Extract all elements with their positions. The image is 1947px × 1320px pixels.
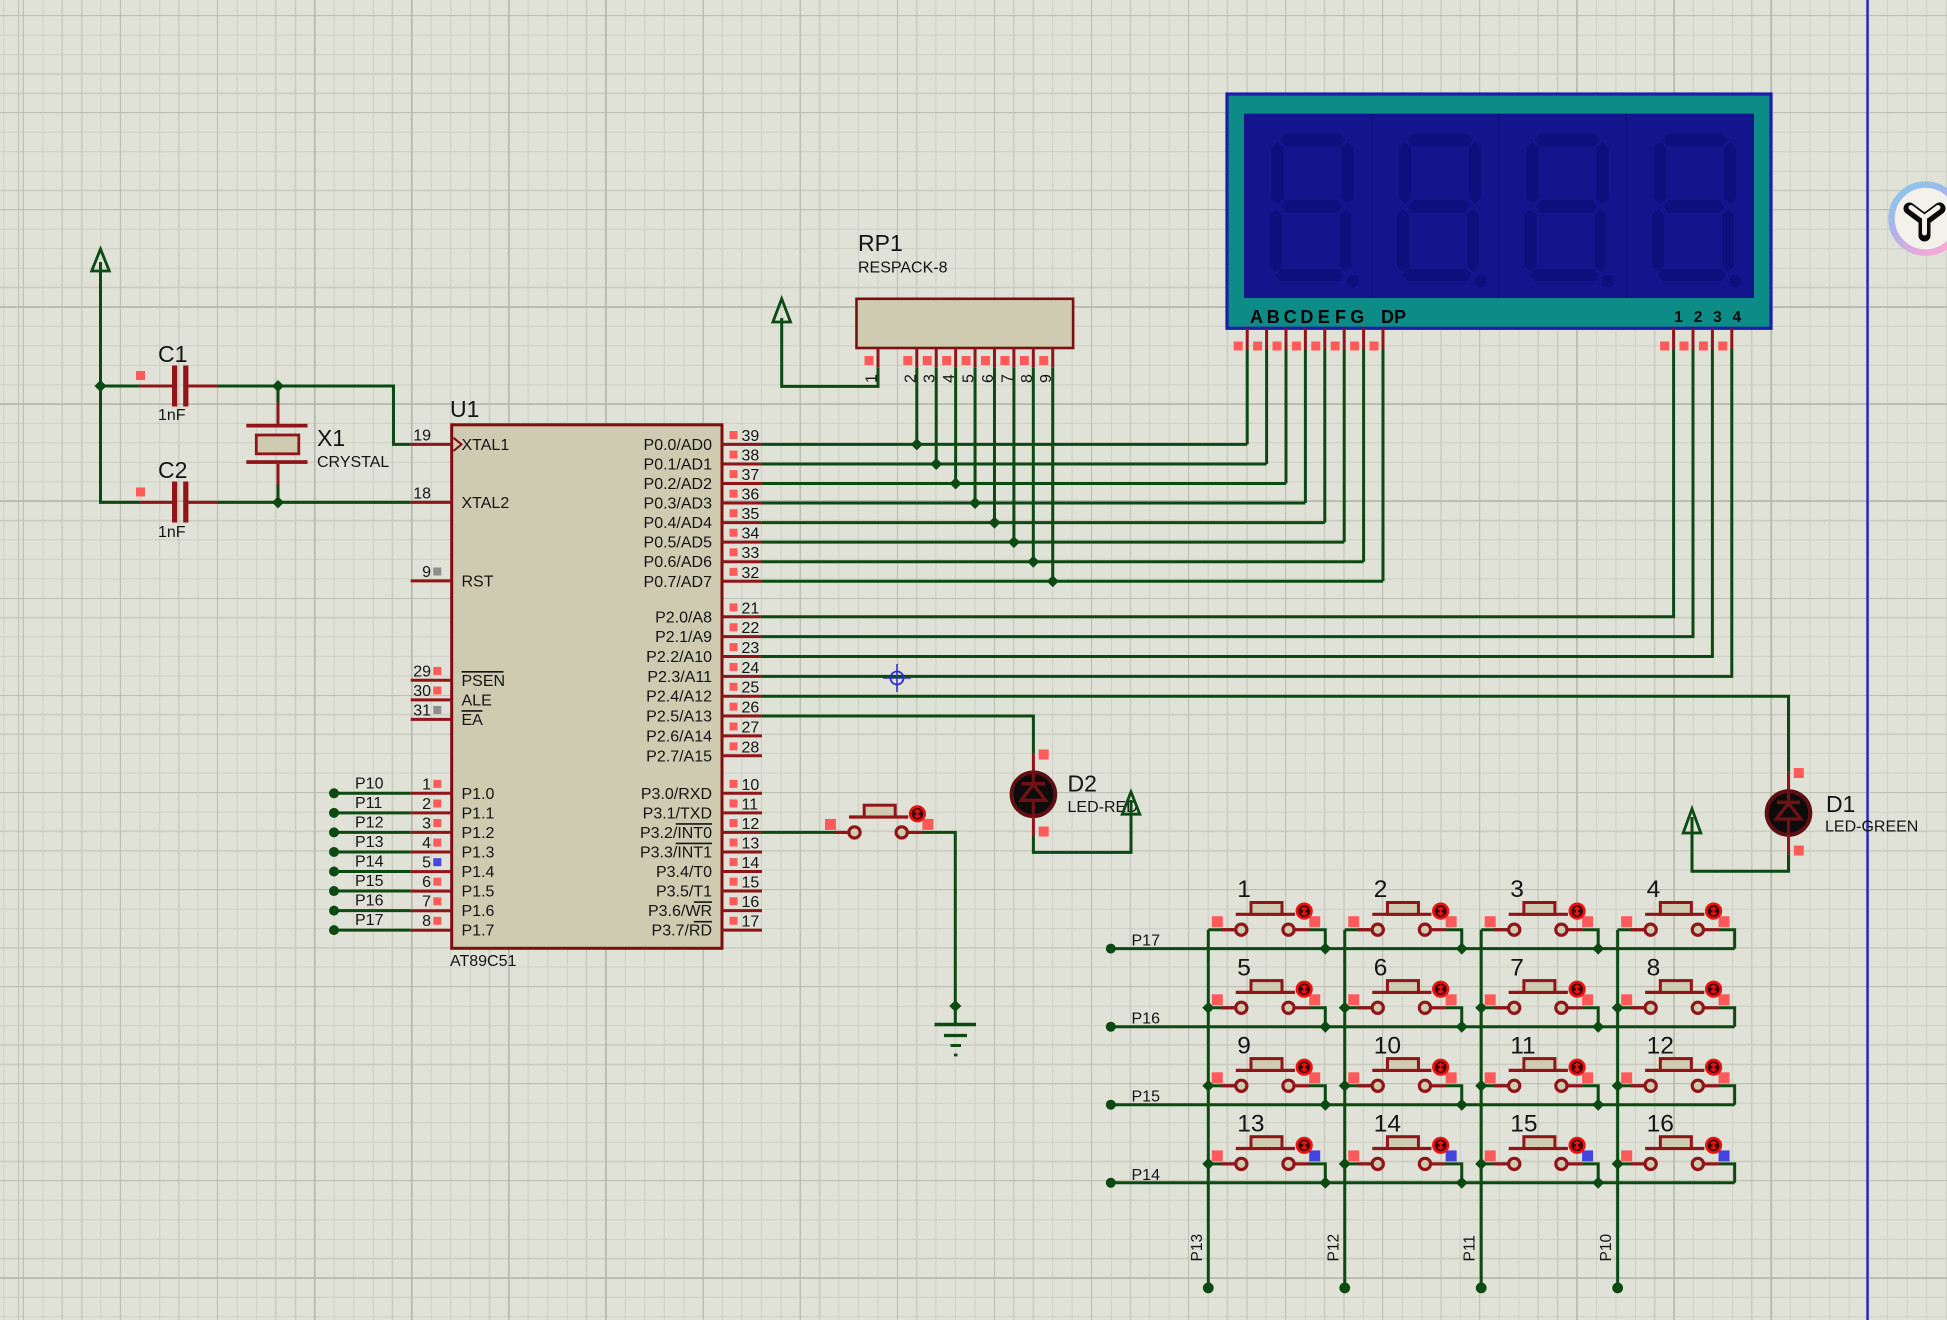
pin 7 P1.6 (left) [411, 894, 495, 921]
RP1 pin 2 stub [902, 348, 919, 383]
wire button 15 to row bus [1582, 1164, 1598, 1183]
pin 31 EA (left) [411, 702, 483, 729]
node P11 terminal [1476, 1283, 1487, 1294]
pin 33 P0.6/AD6 (right) [644, 545, 762, 571]
digit 4 segments [1652, 134, 1742, 287]
button 15 [1485, 1110, 1593, 1169]
svg-text:P14: P14 [1132, 1167, 1161, 1184]
RP1 pin 6 stub [980, 348, 997, 383]
svg-text:P1.7: P1.7 [462, 923, 495, 940]
svg-text:10: 10 [1374, 1032, 1401, 1059]
XTAL1 clock chevron [454, 438, 462, 451]
wire button 4 to row bus [1719, 930, 1735, 949]
svg-text:P3.7/RD: P3.7/RD [652, 923, 712, 940]
svg-text:2: 2 [1694, 309, 1703, 326]
svg-text:P1.0: P1.0 [462, 786, 495, 803]
wire button 8 left stub [1618, 1006, 1645, 1009]
svg-text:32: 32 [742, 565, 760, 582]
wire P2.0 to display digit 1 [762, 350, 1674, 617]
pin 32 P0.7/AD7 (right) [644, 565, 762, 591]
junction button 6 row [1456, 1021, 1468, 1033]
svg-text:AT89C51: AT89C51 [450, 953, 517, 970]
display pin 4 stub [1718, 328, 1732, 350]
pin 27 P2.6/A14 (right) [646, 719, 762, 745]
button 5 [1212, 954, 1320, 1013]
node P16 wire [329, 893, 411, 916]
junction button 9 row [1319, 1099, 1331, 1111]
display pin 2 stub [1680, 328, 1694, 350]
junction button 12 column [1612, 1080, 1624, 1092]
wire button 11 to row bus [1582, 1086, 1598, 1105]
svg-text:26: 26 [742, 700, 760, 717]
junction button 14 row [1456, 1177, 1468, 1189]
svg-text:29: 29 [413, 663, 431, 680]
svg-text:19: 19 [413, 427, 431, 444]
svg-text:XTAL1: XTAL1 [462, 437, 510, 454]
svg-text:P2.5/A13: P2.5/A13 [646, 709, 712, 726]
display segment labels ABCDEFG DP [1250, 307, 1406, 327]
display pin D stub [1292, 328, 1306, 350]
svg-text:25: 25 [742, 680, 760, 697]
node P13 wire [329, 834, 411, 857]
junction button 7 column [1475, 1002, 1487, 1014]
svg-text:U1: U1 [450, 396, 479, 422]
button 7 [1485, 954, 1593, 1013]
pin 1 P1.0 (left) [411, 776, 495, 803]
svg-text:P1.4: P1.4 [462, 864, 495, 881]
svg-text:P0.7/AD7: P0.7/AD7 [644, 574, 713, 591]
wire RP1 pin 2 vertical [915, 368, 918, 445]
svg-text:P16: P16 [1132, 1011, 1161, 1028]
svg-text:E: E [1318, 307, 1330, 327]
svg-text:37: 37 [742, 467, 760, 484]
wire RP1 pin 4 vertical [954, 368, 957, 484]
wire display segment D vertical [1304, 350, 1307, 504]
svg-text:P17: P17 [355, 912, 384, 929]
svg-text:1: 1 [1237, 876, 1251, 903]
svg-text:5: 5 [422, 855, 431, 872]
wire button 5 left stub [1208, 1006, 1235, 1009]
push button (INT0) [825, 805, 933, 838]
svg-text:31: 31 [413, 702, 431, 719]
svg-text:14: 14 [1374, 1110, 1401, 1137]
svg-text:P2.3/A11: P2.3/A11 [647, 669, 712, 686]
svg-text:8: 8 [422, 913, 431, 930]
button 13 [1212, 1110, 1320, 1169]
wire C1 to xtal node [218, 385, 278, 388]
wire RP1 pin 6 vertical [993, 368, 996, 523]
wire display segment H vertical [1382, 350, 1385, 582]
wire button 6 left stub [1345, 1006, 1372, 1009]
svg-text:7: 7 [422, 894, 431, 911]
svg-text:C1: C1 [158, 341, 187, 367]
wire button 11 left stub [1481, 1084, 1508, 1087]
wire button 9 left stub [1208, 1084, 1235, 1087]
node P17 wire [329, 912, 411, 935]
node junction xtal bottom [272, 496, 284, 508]
origin crosshair marker [883, 664, 911, 692]
svg-text:3: 3 [1713, 309, 1722, 326]
pin 24 P2.3/A11 (right) [647, 660, 762, 686]
svg-text:24: 24 [742, 660, 760, 677]
display pin B stub [1253, 328, 1267, 350]
node P17 terminal [1106, 944, 1116, 954]
button 12 [1621, 1032, 1729, 1091]
display pin G stub [1350, 328, 1364, 350]
wire button 13 to row bus [1309, 1164, 1325, 1183]
wire button 16 left stub [1618, 1162, 1645, 1165]
node P14 wire [329, 854, 411, 877]
wire D1 to power [1692, 832, 1789, 871]
pin 39 P0.0/AD0 (right) [644, 428, 762, 454]
wire button 16 to row bus [1719, 1164, 1735, 1183]
svg-text:39: 39 [742, 428, 760, 445]
pin 14 P3.4/T0 (right) [656, 855, 762, 881]
wire display segment F vertical [1343, 350, 1346, 543]
wire P3.2 to button [762, 831, 841, 834]
wire button 12 left stub [1618, 1084, 1645, 1087]
pin 28 P2.7/A15 (right) [646, 739, 762, 765]
svg-text:9: 9 [1038, 374, 1055, 383]
svg-text:7: 7 [999, 374, 1016, 383]
svg-text:36: 36 [742, 487, 760, 504]
pin 12 P3.2/INT0 (right) [640, 816, 762, 842]
display pin F stub [1331, 328, 1345, 350]
svg-text:RP1: RP1 [858, 230, 903, 256]
wire button 10 left stub [1345, 1084, 1372, 1087]
junction above ground [949, 1000, 961, 1012]
svg-text:8: 8 [1647, 954, 1661, 981]
junction RP1 pin 2 [911, 438, 923, 450]
wire button 6 to row bus [1446, 1008, 1462, 1027]
button 2 [1348, 876, 1456, 935]
power arrow (top-left VCC) [92, 249, 110, 386]
pin 15 P3.5/T1 (right) [656, 875, 762, 901]
button 3 [1485, 876, 1593, 935]
svg-text:3: 3 [922, 374, 939, 383]
node P15 wire [329, 873, 411, 896]
svg-text:RESPACK-8: RESPACK-8 [858, 260, 948, 277]
node P16 terminal [1106, 1022, 1116, 1032]
wire P2.2 to display digit 3 [762, 350, 1712, 657]
LED D2 LED-RED [1012, 750, 1138, 837]
svg-text:P0.4/AD4: P0.4/AD4 [644, 515, 713, 532]
svg-text:P11: P11 [355, 795, 382, 812]
svg-text:P1.3: P1.3 [462, 845, 495, 862]
wire P0.7 to display segment [762, 580, 1383, 583]
pin 16 P3.6/WR (right) [648, 894, 762, 920]
svg-text:13: 13 [1237, 1110, 1264, 1137]
wire button 3 left stub [1481, 928, 1508, 931]
svg-text:9: 9 [422, 564, 431, 581]
wire to pin18 [278, 501, 411, 504]
wire button 13 left stub [1208, 1162, 1235, 1165]
junction button 11 row [1592, 1099, 1604, 1111]
svg-text:38: 38 [742, 447, 760, 464]
capacitor C2 [136, 457, 219, 541]
wire P0.0 to display segment [762, 443, 1247, 446]
junction button 7 row [1592, 1021, 1604, 1033]
svg-text:D1: D1 [1826, 791, 1855, 817]
svg-text:P1.6: P1.6 [462, 903, 495, 920]
wire row bus P15 [1111, 1103, 1735, 1106]
svg-text:17: 17 [742, 914, 760, 931]
pin 36 P0.3/AD3 (right) [644, 487, 762, 513]
sheet border line [1866, 0, 1868, 1320]
svg-text:X1: X1 [317, 425, 345, 451]
wire button to ground [923, 832, 956, 1023]
display pin C stub [1273, 328, 1287, 350]
pin 8 P1.7 (left) [411, 913, 495, 940]
junction button 3 row [1592, 943, 1604, 955]
node junction at C1 left [95, 380, 107, 392]
svg-text:P16: P16 [355, 893, 384, 910]
pin 11 P3.1/TXD (right) [643, 796, 762, 822]
wire button 12 to row bus [1719, 1086, 1735, 1105]
RP1 pin 5 stub [961, 348, 978, 383]
pin 23 P2.2/A10 (right) [646, 640, 762, 666]
svg-text:P0.5/AD5: P0.5/AD5 [644, 535, 713, 552]
wire button 9 to row bus [1309, 1086, 1325, 1105]
svg-text:D: D [1300, 307, 1313, 327]
svg-text:P0.2/AD2: P0.2/AD2 [644, 476, 713, 493]
wire row bus P14 [1111, 1181, 1735, 1184]
junction button 5 column [1202, 1002, 1214, 1014]
wire RP1 pin 9 vertical [1051, 368, 1054, 582]
svg-text:11: 11 [742, 796, 759, 813]
wire P0.5 to display segment [762, 541, 1344, 544]
svg-text:3: 3 [1510, 876, 1524, 903]
capacitor C1 [136, 341, 219, 424]
svg-text:P10: P10 [1598, 1234, 1615, 1262]
junction button 10 row [1456, 1099, 1468, 1111]
wire P0.2 to display segment [762, 482, 1286, 485]
svg-text:6: 6 [1374, 954, 1388, 981]
svg-text:P3.2/INT0: P3.2/INT0 [640, 825, 712, 842]
svg-text:33: 33 [742, 545, 760, 562]
svg-text:12: 12 [1647, 1032, 1674, 1059]
svg-text:4: 4 [1647, 876, 1661, 903]
button 4 [1621, 876, 1729, 935]
button 1 [1212, 876, 1320, 935]
svg-text:P3.6/WR: P3.6/WR [648, 903, 712, 920]
pin 21 P2.0/A8 (right) [655, 600, 762, 626]
node P14 terminal [1106, 1178, 1116, 1188]
junction button 15 row [1592, 1177, 1604, 1189]
svg-text:D2: D2 [1068, 771, 1097, 797]
RP1 pin 8 stub [1019, 348, 1036, 383]
junction button 13 column [1202, 1158, 1214, 1170]
pin 29 PSEN (left) [411, 663, 505, 690]
svg-text:16: 16 [1647, 1110, 1674, 1137]
wire button 4 left stub [1618, 928, 1645, 931]
wire button 7 left stub [1481, 1006, 1508, 1009]
junction button 10 column [1339, 1080, 1351, 1092]
pin 38 P0.1/AD1 (right) [644, 447, 762, 473]
pin 34 P0.5/AD5 (right) [644, 526, 762, 552]
wire (left vertical to C2 row) [101, 386, 141, 502]
RP1 pin 7 stub [999, 348, 1016, 383]
svg-text:1nF: 1nF [158, 524, 186, 541]
node P13 terminal [1203, 1283, 1214, 1294]
wire P0.3 to display segment [762, 502, 1305, 505]
RP1 pin 1 stub [864, 348, 881, 383]
display pin H stub [1370, 328, 1384, 350]
svg-text:P2.2/A10: P2.2/A10 [646, 649, 712, 666]
pin 22 P2.1/A9 (right) [655, 620, 762, 646]
wire display segment A vertical [1246, 350, 1249, 445]
svg-text:5: 5 [1237, 954, 1251, 981]
wire RP1 pin 8 vertical [1032, 368, 1035, 562]
ground symbol [935, 1025, 977, 1056]
wire RP1 pin 7 vertical [1012, 368, 1015, 542]
svg-text:12: 12 [742, 816, 760, 833]
wire to pin19 corner [278, 386, 411, 444]
svg-text:2: 2 [1374, 876, 1388, 903]
wire P2.1 to display digit 2 [762, 350, 1693, 637]
watermark logo [1892, 185, 1947, 253]
pin 30 ALE (left) [411, 683, 492, 710]
svg-text:P13: P13 [1189, 1234, 1206, 1262]
svg-text:2: 2 [422, 796, 431, 813]
wire RP1 pin 5 vertical [974, 368, 977, 503]
wire C2 to xtal bottom node [218, 501, 278, 504]
pin 13 P3.3/INT1 (right) [640, 835, 762, 861]
button 11 [1485, 1032, 1593, 1091]
junction RP1 pin 8 [1027, 556, 1039, 568]
junction button 11 column [1475, 1080, 1487, 1092]
svg-text:9: 9 [1237, 1032, 1251, 1059]
pin 9 RST (left) [411, 564, 494, 591]
svg-text:34: 34 [742, 526, 760, 543]
RP1 pin 4 stub [941, 348, 958, 383]
pin 18 XTAL2 (left) [411, 485, 510, 512]
svg-text:6: 6 [980, 374, 997, 383]
svg-text:4: 4 [941, 374, 958, 383]
svg-text:P14: P14 [355, 854, 384, 871]
svg-text:P3.3/INT1: P3.3/INT1 [640, 844, 712, 861]
digit 2 segments [1397, 134, 1487, 287]
svg-text:P1.5: P1.5 [462, 884, 495, 901]
pin 3 P1.2 (left) [411, 815, 495, 842]
wire column P12 [1343, 930, 1346, 1288]
button 14 [1348, 1110, 1456, 1169]
svg-text:ALE: ALE [462, 692, 492, 709]
junction button 8 column [1612, 1002, 1624, 1014]
wire row bus P16 [1111, 1025, 1735, 1028]
pin 19 XTAL1 (left) [411, 427, 510, 454]
wire [101, 385, 141, 388]
wire column P10 [1616, 930, 1619, 1288]
pin 37 P0.2/AD2 (right) [644, 467, 762, 493]
svg-text:P15: P15 [1132, 1089, 1161, 1106]
wire column P11 [1480, 930, 1483, 1288]
svg-text:35: 35 [742, 506, 760, 523]
svg-text:1: 1 [422, 776, 431, 793]
svg-text:XTAL2: XTAL2 [462, 495, 510, 512]
node P11 wire [329, 795, 411, 818]
button 8 [1621, 954, 1729, 1013]
svg-text:P3.4/T0: P3.4/T0 [656, 864, 712, 881]
pin 17 P3.7/RD (right) [652, 914, 762, 940]
wire display segment G vertical [1362, 350, 1365, 562]
power arrow (D1) [1683, 809, 1701, 833]
pin 4 P1.3 (left) [411, 835, 495, 862]
svg-text:27: 27 [742, 719, 760, 736]
node P12 wire [329, 814, 411, 837]
wire button 5 to row bus [1309, 1008, 1325, 1027]
svg-text:P0.0/AD0: P0.0/AD0 [644, 437, 713, 454]
wire row bus P17 [1111, 947, 1735, 950]
wire button 7 to row bus [1582, 1008, 1598, 1027]
svg-text:23: 23 [742, 640, 760, 657]
junction button 14 column [1339, 1158, 1351, 1170]
svg-text:P11: P11 [1462, 1235, 1479, 1261]
svg-text:6: 6 [422, 874, 431, 891]
svg-text:P2.7/A15: P2.7/A15 [646, 748, 712, 765]
wire button 15 left stub [1481, 1162, 1508, 1165]
wire button 14 to row bus [1446, 1164, 1462, 1183]
wire P0.6 to display segment [762, 560, 1364, 563]
node P15 terminal [1106, 1100, 1116, 1110]
wire P2.4 to LED D1 [762, 696, 1789, 771]
svg-text:22: 22 [742, 620, 760, 637]
wire button 14 left stub [1345, 1162, 1372, 1165]
wire display segment B vertical [1265, 350, 1268, 464]
junction RP1 pin 3 [930, 458, 942, 470]
svg-text:P3.0/RXD: P3.0/RXD [641, 786, 712, 803]
svg-text:B: B [1267, 307, 1280, 327]
svg-text:3: 3 [422, 815, 431, 832]
button 6 [1348, 954, 1456, 1013]
digit 3 segments [1525, 134, 1615, 287]
svg-text:LED-GREEN: LED-GREEN [1825, 819, 1918, 836]
svg-text:P0.6/AD6: P0.6/AD6 [644, 554, 713, 571]
resistor pack RP1 [857, 230, 1074, 348]
svg-text:P1.2: P1.2 [462, 825, 495, 842]
svg-text:P13: P13 [355, 834, 384, 851]
junction button 16 column [1612, 1158, 1624, 1170]
svg-text:P2.6/A14: P2.6/A14 [646, 728, 712, 745]
svg-text:P2.1/A9: P2.1/A9 [655, 629, 712, 646]
wire P2.5 to LED D2 [762, 716, 1033, 754]
power arrow (RP1) [773, 299, 791, 322]
junction button 9 column [1202, 1080, 1214, 1092]
wire column P13 [1207, 930, 1210, 1288]
svg-text:P15: P15 [355, 873, 384, 890]
junction RP1 pin 6 [988, 517, 1000, 529]
svg-text:RST: RST [462, 573, 494, 590]
wire D2 to power [1033, 814, 1131, 852]
pin 5 P1.4 (left) [411, 855, 495, 882]
svg-text:18: 18 [413, 485, 431, 502]
svg-text:P0.1/AD1: P0.1/AD1 [644, 456, 713, 473]
svg-text:P3.1/TXD: P3.1/TXD [643, 805, 712, 822]
wire button 2 to row bus [1446, 930, 1462, 949]
svg-text:10: 10 [742, 777, 760, 794]
wire button 1 left stub [1208, 928, 1235, 931]
svg-text:21: 21 [742, 600, 760, 617]
svg-text:P0.3/AD3: P0.3/AD3 [644, 496, 713, 513]
crystal X1 [246, 386, 389, 502]
svg-text:5: 5 [961, 374, 978, 383]
node P10 wire [329, 775, 411, 798]
svg-text:11: 11 [1510, 1032, 1535, 1059]
svg-text:G: G [1350, 307, 1364, 327]
junction button 6 column [1339, 1002, 1351, 1014]
wire button 1 to row bus [1309, 930, 1325, 949]
junction button 13 row [1319, 1177, 1331, 1189]
